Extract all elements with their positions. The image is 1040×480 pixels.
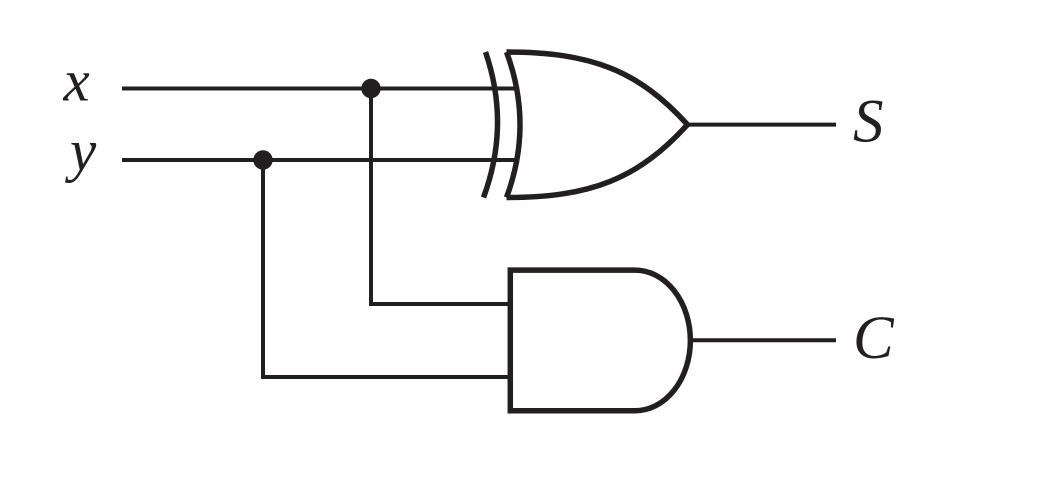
svg-text:x: x	[63, 48, 90, 114]
XOR gate U1 body	[507, 52, 688, 198]
node junction on y wire	[253, 150, 272, 169]
wire XOR output to S	[687, 123, 837, 127]
wire x input to XOR	[122, 87, 519, 91]
wire from x junction down to AND input	[371, 89, 511, 305]
svg-text:y: y	[65, 117, 97, 183]
wire from y junction down to AND input	[263, 160, 511, 377]
svg-text:C: C	[853, 305, 895, 372]
XOR gate U1 input arc	[484, 52, 498, 198]
wire y input to XOR	[122, 158, 519, 162]
AND gate U2 body	[510, 270, 690, 411]
wire AND output to C	[690, 338, 836, 342]
svg-text:S: S	[853, 89, 884, 156]
node junction on x wire	[361, 79, 380, 98]
